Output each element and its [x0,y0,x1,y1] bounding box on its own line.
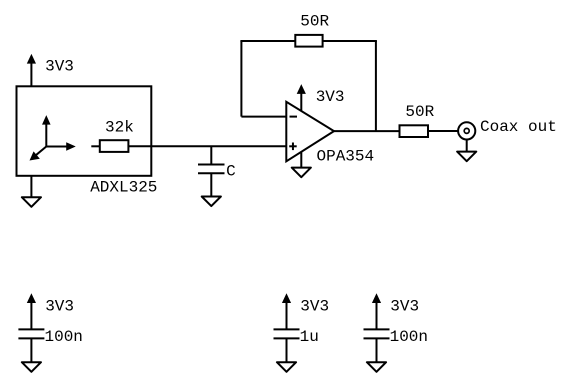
svg-text:1u: 1u [300,328,319,346]
IC U1 ADXL325 body [17,86,152,176]
capacitor C [198,165,225,174]
ground (C2) [277,362,296,372]
svg-text:100n: 100n [45,328,83,346]
wire feedback left vertical [240,41,242,117]
wire op-amp output [334,130,400,132]
wire 50R to coax connector [428,130,459,132]
3V3 power arrow (op-amp supply) [298,85,306,111]
wire capacitor C to node [210,146,212,164]
wire to op-amp - input [241,116,286,118]
wire capacitor C to ground [210,173,212,196]
svg-text:C: C [226,163,236,181]
ground (C1) [22,362,41,372]
wire coax shield to ground [466,140,468,152]
resistor 32k [91,140,128,152]
svg-text:50R: 50R [300,12,329,30]
wire feedback right vertical [375,41,377,131]
svg-text:ADXL325: ADXL325 [90,179,157,197]
svg-text:50R: 50R [405,103,434,121]
wire C1 to ground [30,338,32,362]
3-axis symbol inside ADXL325 [30,116,74,160]
ground (op-amp) [292,168,311,178]
wire ADXL325 to ground [30,176,32,197]
svg-text:3V3: 3V3 [300,298,329,316]
3V3 power arrow (ADXL325 supply) [28,55,36,86]
ground (ADXL325) [22,197,41,207]
svg-text:100n: 100n [390,328,428,346]
svg-text:3V3: 3V3 [45,58,74,76]
wire feedback top [240,40,377,42]
svg-text:Coax out: Coax out [480,118,557,136]
svg-text:3V3: 3V3 [45,298,74,316]
wire 32k output to op-amp + input [128,145,286,147]
capacitor C3 100n [364,329,390,338]
wire op-amp to ground [300,152,302,168]
svg-text:3V3: 3V3 [390,298,419,316]
capacitor C2 1u [274,329,300,338]
ground (C3) [367,362,386,372]
op-amp U2 OPA354 [286,102,334,162]
svg-text:3V3: 3V3 [316,88,345,106]
svg-text:32k: 32k [105,118,134,136]
wire C2 to ground [286,338,288,362]
ground (capacitor C) [202,197,221,207]
coax connector J1 [458,122,475,139]
svg-text:OPA354: OPA354 [317,147,375,165]
3V3 power arrow (C1) [28,294,36,329]
ground (coax) [457,152,476,162]
3V3 power arrow (C3) [373,294,381,329]
3V3 power arrow (C2) [283,294,291,329]
resistor 50R (feedback) [295,35,322,47]
capacitor C1 100n [18,329,44,338]
wire C3 to ground [376,338,378,362]
resistor 50R (output) [400,125,429,137]
